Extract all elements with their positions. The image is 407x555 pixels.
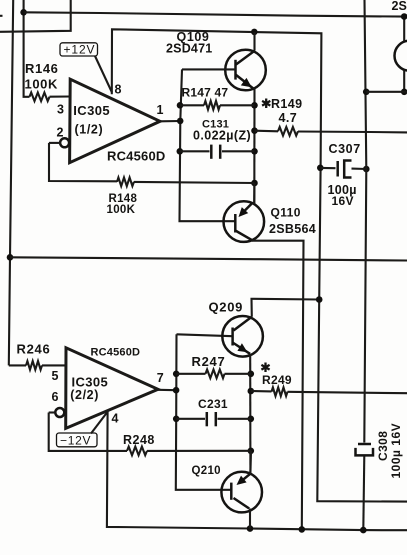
resistor R248 feedback	[49, 413, 251, 456]
svg-text:R246: R246	[17, 342, 51, 357]
svg-text:16V: 16V	[332, 194, 354, 208]
svg-text:R146: R146	[25, 61, 58, 76]
svg-text:R247: R247	[192, 354, 226, 369]
capacitor C308 100u 16V	[356, 423, 404, 479]
wire: output column 2	[176, 334, 232, 490]
node: top-right dots	[363, 13, 407, 95]
resistor R147 47	[180, 86, 255, 110]
svg-text:8: 8	[115, 83, 122, 97]
wire: pin4 down to -12V bottom rail	[107, 411, 407, 530]
node: bottom rail dots	[247, 525, 367, 533]
svg-text:C308: C308	[376, 431, 390, 461]
svg-text:3: 3	[57, 103, 64, 117]
svg-text:7: 7	[157, 371, 164, 385]
capacitor C231	[176, 397, 251, 426]
wire: stub at left edge	[0, 15, 3, 17]
svg-text:100µ 16V: 100µ 16V	[389, 423, 403, 479]
wire: output column (op-amp out / bases)	[180, 69, 236, 221]
resistor R246	[9, 342, 66, 370]
pin 2 inverting input bubble	[60, 138, 69, 147]
wire: Q109 collector up to rail	[253, 32, 255, 51]
wire: op-amp2 output to column	[158, 389, 176, 392]
-12V supply label box	[57, 413, 107, 448]
node: output dot	[177, 118, 184, 125]
svg-text:5: 5	[52, 369, 59, 383]
svg-text:2SD471: 2SD471	[166, 42, 212, 56]
transistor Q110 2SB564 (PNP)	[224, 201, 316, 242]
wire: left input vertical from top edge down to R246 corner	[9, 0, 13, 365]
svg-text:2SB564: 2SB564	[269, 222, 316, 236]
svg-text:Q210: Q210	[192, 465, 221, 477]
+12V supply label box	[60, 43, 112, 93]
svg-text:RC4560D: RC4560D	[107, 149, 166, 164]
resistor R146 100K	[25, 61, 71, 101]
node: emitter column dots	[251, 102, 258, 186]
node: C131 left dot	[177, 148, 184, 155]
svg-text:Q110: Q110	[271, 206, 301, 220]
wire: top-left elbow from top edge to left edge	[0, 0, 71, 32]
capacitor C307 100u 16V	[317, 142, 370, 208]
svg-text:IC305: IC305	[73, 103, 110, 118]
node: Q109 collector junction on +12V rail	[251, 29, 258, 36]
transistor Q209 (NPN)	[209, 300, 263, 357]
op-amp U1 IC305 (1/2) triangle	[57, 79, 166, 163]
wire: emitter column 2	[249, 354, 251, 474]
resistor R148 100K feedback	[49, 143, 255, 216]
svg-text:R149: R149	[271, 97, 302, 111]
svg-text:R249: R249	[262, 373, 292, 387]
svg-text:1: 1	[157, 103, 164, 117]
op-amp U2 IC305 (2/2) triangle	[52, 346, 164, 428]
svg-text:C231: C231	[198, 397, 228, 411]
wire: +12V rail pin8 up, across, down right side	[112, 29, 407, 501]
pin 6 inverting input bubble	[55, 408, 64, 417]
svg-text:2S: 2S	[392, 0, 407, 13]
wire: Q209 base jog	[177, 334, 233, 336]
svg-text:RC4560D: RC4560D	[91, 346, 141, 358]
node: R147 left dot	[177, 102, 184, 109]
node: output column 2 dots	[173, 371, 180, 423]
svg-text:100K: 100K	[25, 77, 58, 92]
asterisk for R249	[261, 363, 269, 373]
wire: emitter column x254	[253, 89, 255, 205]
wire: Q110 emitter up to node	[253, 183, 255, 204]
node: junction dot on top line	[20, 9, 27, 16]
wire: top horizontal line across page	[24, 12, 407, 16]
svg-text:Q209: Q209	[209, 300, 244, 315]
svg-text:6: 6	[52, 390, 59, 404]
wire: op-amp1 output to column	[160, 120, 180, 122]
wire: long middle horizontal rail	[10, 257, 407, 260]
asterisk for R149	[262, 99, 270, 109]
transistor Q210 (PNP)	[192, 465, 263, 512]
transistor Q109 2SD471 (NPN)	[166, 30, 266, 90]
svg-text:2: 2	[57, 126, 64, 140]
svg-text:IC305: IC305	[72, 374, 109, 389]
svg-text:R147 47: R147 47	[182, 86, 229, 100]
svg-text:(2/2): (2/2)	[70, 388, 99, 402]
svg-text:100K: 100K	[107, 204, 136, 216]
node: Q209 collector dot on rail	[316, 296, 323, 303]
capacitor C131 0.022u(Z)	[180, 119, 255, 159]
svg-text:4.7: 4.7	[279, 111, 298, 125]
svg-text:+12V: +12V	[64, 43, 96, 57]
wire: Q109 base from output column	[182, 68, 236, 70]
svg-text:0.022µ(Z): 0.022µ(Z)	[193, 129, 251, 143]
transistor partial at top right edge	[392, 0, 407, 92]
wire: Q210 collector down	[249, 509, 251, 529]
resistor R149 4.7	[255, 97, 407, 136]
wire: Q209 collector up and to +12V rail	[252, 299, 320, 317]
wire: second vertical from top edge to R146	[24, 0, 30, 97]
svg-text:4: 4	[112, 411, 119, 425]
wire: tall right rail x365	[364, 0, 366, 443]
node: emitter column 2 dots	[248, 371, 255, 455]
svg-text:−12V: −12V	[60, 433, 91, 447]
node: junction dot input rail to mid rail	[7, 254, 14, 261]
resistor R247	[176, 354, 251, 378]
wire: Q210 emitter up	[249, 451, 252, 474]
wire: Q110 collector to right and down	[252, 241, 304, 530]
svg-text:R248: R248	[123, 433, 155, 447]
wire: horizontal at y92 right side	[366, 91, 407, 93]
svg-text:(1/2): (1/2)	[75, 123, 104, 137]
svg-text:C307: C307	[329, 142, 361, 156]
resistor R249	[251, 373, 407, 396]
